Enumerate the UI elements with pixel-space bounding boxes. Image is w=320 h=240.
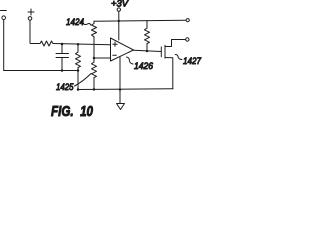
leader from 1427 label to transistor <box>175 55 182 60</box>
wire bus2 (bottom horizontal to transistor source) <box>78 88 173 91</box>
resistor R1424 (vertical from +3V rail to minus node) <box>92 21 97 58</box>
label 1426 <box>134 61 154 72</box>
terminal T1 (minus input terminal) <box>2 16 6 20</box>
resistor R-in (horizontal, unlabeled) <box>40 41 53 46</box>
terminal drain output <box>186 38 189 41</box>
wire top node to op-amp plus input <box>53 44 111 45</box>
terminal T2 (plus input terminal) <box>28 17 32 21</box>
node dot bus1 meets R2 <box>77 69 80 72</box>
label 1424 <box>66 17 84 28</box>
wire +3V down to op-amp power pin <box>118 11 120 40</box>
figure caption FIG. 10 <box>51 103 94 120</box>
leader from 1424 label to R1424 <box>82 22 92 25</box>
svg-text:1427: 1427 <box>183 56 202 67</box>
svg-text:1425: 1425 <box>56 82 74 93</box>
resistor R3 (vertical from rail to output, unlabeled) <box>145 21 150 51</box>
svg-text:FIG. 10: FIG. 10 <box>51 103 94 120</box>
label 1427 <box>183 56 202 67</box>
ground symbol (open triangle) <box>117 104 125 110</box>
wire left vertical from T1 down <box>3 20 5 71</box>
terminal minus label <box>1 10 7 12</box>
node dot at resistor R2 top <box>77 43 80 46</box>
node dot ground wire on bus2 <box>119 88 121 90</box>
node dot bus2 left end <box>77 88 80 91</box>
node dot minus input node <box>93 57 96 60</box>
wire minus node to op-amp inverting input <box>94 57 111 59</box>
label 1425 <box>56 82 74 93</box>
wire bus1 (bottom-left horizontal) <box>4 70 78 72</box>
op-amp minus input symbol <box>113 54 117 56</box>
resistor R1425 (vertical below minus node) <box>92 58 97 89</box>
svg-text:1426: 1426 <box>134 61 154 72</box>
wire from T2 down and right <box>30 20 40 43</box>
node dot capacitor bottom on bus1 <box>61 69 64 72</box>
terminal +3V <box>117 8 120 11</box>
wire op-amp output to gate <box>134 50 162 51</box>
capacitor C1 <box>56 44 69 71</box>
node dot +3V rail junction <box>118 20 120 22</box>
transistor Q1427 <box>161 40 185 89</box>
terminal rail right end <box>186 19 189 22</box>
node dot output meets R3 <box>146 50 149 53</box>
label +3V <box>111 0 130 10</box>
wire +3V rail <box>94 19 186 22</box>
leader from 1426 label to op-amp <box>127 57 134 64</box>
terminal plus label <box>28 9 34 15</box>
resistor R2 (vertical, unlabeled) <box>76 44 81 89</box>
node dot at capacitor top <box>61 43 64 46</box>
node dot R1425 bottom on bus2 <box>93 88 96 91</box>
op-amp plus input symbol <box>113 42 117 46</box>
op-amp U1426 triangle <box>111 38 134 61</box>
wire op-amp ground pin down <box>119 56 121 103</box>
svg-text:1424: 1424 <box>66 17 84 28</box>
leader from 1425 label to R1425 <box>75 74 92 87</box>
